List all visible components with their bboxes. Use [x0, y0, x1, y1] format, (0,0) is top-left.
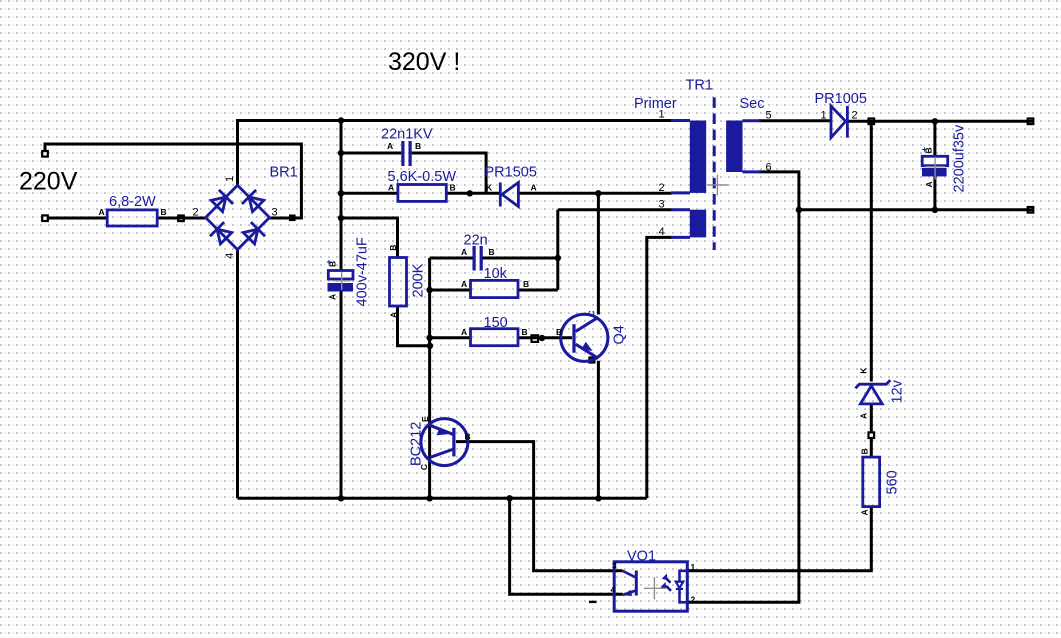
crosshair 400v-47uF origin [333, 272, 351, 290]
terminal pad output plus [1028, 119, 1034, 125]
junction Q4 base node [539, 335, 545, 341]
wire transformer pin 5 to PR1005 anode [759, 119, 832, 122]
svg-text:560: 560 [885, 470, 901, 494]
svg-text:A: A [99, 207, 105, 217]
svg-text:A: A [328, 294, 338, 300]
svg-text:3: 3 [612, 561, 617, 571]
junction 2200uF bottom [932, 207, 938, 213]
svg-text:220V: 220V [19, 168, 78, 196]
wire 560 A to opto pin 1 [687, 507, 871, 571]
svg-text:4: 4 [224, 253, 236, 259]
wire pad to 560 B [870, 438, 873, 457]
svg-text:22n1KV: 22n1KV [381, 126, 433, 142]
junction snubber row / x341 [338, 190, 344, 196]
pin letters 400v cap [324, 260, 338, 268]
svg-text:C: C [419, 464, 429, 470]
svg-text:E: E [420, 416, 430, 422]
wire ground rail to opto pin 4 [510, 498, 623, 594]
svg-text:150: 150 [484, 315, 508, 331]
wire 22n1KV row right with drop to snubber row [412, 153, 487, 193]
terminal pad 220V live [42, 151, 48, 157]
wire HV rail x341 lower [340, 292, 343, 499]
resistor 5,6K-0.5W [398, 185, 446, 202]
svg-text:A: A [461, 247, 467, 257]
pin numbers PR1005 [821, 109, 858, 121]
svg-text:5,6K-0.5W: 5,6K-0.5W [388, 169, 457, 185]
svg-text:2: 2 [659, 182, 665, 194]
crosshair 2200uf35v origin [925, 157, 945, 180]
wire 22n1KV row left [341, 152, 401, 155]
wire transformer pin 3 row [558, 208, 672, 211]
svg-text:B: B [522, 327, 528, 337]
wire 2200uF bottom [933, 176, 936, 210]
svg-text:BR1: BR1 [270, 165, 298, 181]
svg-text:12v: 12v [890, 379, 906, 403]
wire 22n row right [482, 257, 558, 260]
svg-text:K: K [859, 367, 869, 374]
capacitor 400v-47uF polarized [328, 271, 354, 292]
junction ground rail / x341 [338, 495, 344, 501]
svg-text:Sec: Sec [740, 96, 765, 112]
svg-text:6,8-2W: 6,8-2W [109, 194, 156, 210]
resistor 6,8-2W [107, 210, 157, 226]
wire resistor B to bridge node 2 [157, 217, 205, 220]
pad 150 B net [532, 335, 539, 342]
wire Q4 emitter to ground rail [597, 361, 600, 499]
svg-text:A: A [924, 181, 934, 187]
wire 200K bottom to mid vertical [398, 306, 430, 346]
wire HV rail x341 upper [340, 121, 343, 271]
svg-text:BC212: BC212 [409, 422, 425, 466]
optocoupler VO1 [614, 562, 687, 611]
wire zener anode to pad [870, 405, 873, 433]
wire mid vertical through BC212 [428, 258, 431, 498]
svg-text:Q4: Q4 [612, 325, 628, 344]
resistor 150 [471, 329, 519, 346]
wire 150 row left [430, 336, 471, 339]
wire secondary return rail [799, 208, 1033, 211]
svg-text:3: 3 [659, 199, 665, 211]
pin letters 6,8-2W [99, 207, 167, 217]
svg-text:2200uf35v: 2200uf35v [952, 124, 968, 192]
terminal pad output minus [1028, 207, 1034, 213]
pad output node [869, 119, 875, 125]
svg-text:A: A [461, 327, 467, 337]
svg-text:B: B [450, 182, 456, 192]
svg-text:TR1: TR1 [686, 78, 713, 94]
svg-text:B: B [556, 327, 562, 337]
wire primary ground rail [238, 497, 647, 500]
svg-text:B: B [465, 432, 471, 442]
bridge rectifier BR1 [206, 185, 270, 249]
wire snubber row rail to 5,6K A [341, 192, 398, 195]
svg-text:+: + [919, 147, 929, 152]
svg-text:B: B [523, 279, 529, 289]
wire transformer pin 6 down to opto pin 2 [687, 172, 799, 602]
junction Q4 collector node [595, 190, 601, 196]
svg-text:A: A [531, 182, 537, 192]
junction 2200uF top [932, 118, 938, 124]
svg-text:2: 2 [193, 207, 199, 219]
junction Q4 emitter / ground rail [595, 495, 601, 501]
svg-text:1: 1 [821, 109, 827, 121]
resistor 200K [390, 258, 407, 307]
svg-text:+: + [324, 260, 334, 265]
svg-text:5: 5 [766, 109, 772, 121]
svg-text:1: 1 [224, 176, 236, 182]
svg-text:Primer: Primer [634, 96, 677, 112]
svg-text:A: A [461, 279, 467, 289]
svg-text:320V !: 320V ! [388, 48, 460, 76]
svg-text:2: 2 [852, 109, 858, 121]
svg-text:A: A [388, 182, 394, 192]
polarity mark minus at opto [589, 601, 597, 603]
pad zener anode net [869, 432, 875, 438]
svg-text:B: B [161, 207, 167, 217]
wire 220V neutral terminal to resistor A [47, 217, 107, 220]
junction 200K bottom node [427, 343, 433, 349]
wire bridge node 1 to top rail and transformer pin 1 [238, 121, 672, 186]
terminal pad 220V neutral [42, 215, 48, 221]
svg-text:A: A [859, 413, 869, 419]
resistor 10k [471, 280, 519, 297]
wire BC212 base to opto pin 3 [456, 442, 623, 571]
junction 22n B node [555, 255, 561, 261]
transformer pin numbers [659, 109, 772, 239]
resistor 560 [863, 457, 880, 507]
pin letters BC212 [419, 416, 471, 470]
pin letters 560 [860, 448, 870, 515]
transformer TR1 [671, 97, 761, 250]
pad bridge node 3 net [290, 216, 294, 220]
svg-text:K: K [486, 182, 493, 192]
diode PR1505 [500, 183, 518, 207]
junction top rail / x341 [338, 117, 344, 123]
wire x341 to 200K top [341, 218, 398, 258]
svg-text:200K: 200K [411, 263, 427, 297]
svg-text:A: A [387, 141, 393, 151]
wire PR1005 cathode to output terminal [848, 120, 1033, 123]
pin letters 2200uf cap [919, 147, 934, 188]
capacitor 2200uf35v polarized [922, 156, 948, 176]
crosshair VO1 origin [644, 577, 666, 599]
transistor BC212 PNP [421, 419, 468, 466]
zener diode 12v [855, 380, 890, 404]
diode PR1005 [831, 106, 847, 138]
capacitor 22n [473, 246, 483, 271]
wire PR1505 anode to transformer pin 2 [518, 192, 671, 195]
wire transformer pin 4 to ground rail [647, 237, 672, 498]
pin letters 10k [461, 279, 529, 289]
wire 5,6K B to PR1505 cathode [446, 192, 499, 195]
svg-text:PR1505: PR1505 [485, 164, 537, 180]
svg-text:10k: 10k [484, 266, 508, 282]
junction BC212 collector / ground rail [426, 495, 432, 501]
svg-text:B: B [388, 245, 398, 251]
junction 150 A node [426, 335, 432, 341]
opto pin numbers [611, 561, 696, 605]
junction pin6 / secondary return [796, 207, 802, 213]
junction 200K jog / x341 [338, 215, 344, 221]
pin letters 200K [388, 245, 398, 318]
wire Q4 collector to snubber node [597, 193, 600, 314]
svg-text:B: B [860, 448, 870, 454]
junction 22n1KV row / x341 [338, 150, 344, 156]
capacitor 22n1KV [401, 141, 411, 166]
svg-text:1: 1 [659, 109, 665, 121]
wire output node to zener cathode [870, 121, 873, 381]
svg-text:B: B [489, 247, 495, 257]
svg-text:PR1005: PR1005 [815, 91, 867, 107]
pin letters 22n [461, 247, 495, 257]
wire bridge node 4 to ground rail [236, 250, 239, 499]
wire 22n row left [430, 257, 473, 260]
wire 10k row left [430, 289, 471, 292]
junction 5,6K B node [467, 190, 473, 196]
svg-text:VO1: VO1 [627, 549, 656, 565]
wire 10k B to feedback vertical [518, 289, 558, 292]
wire 2200uF top [933, 121, 936, 157]
crosshair TR1 origin [707, 175, 728, 196]
bridge pin numbers [193, 176, 278, 259]
wire 220V live terminal to bridge node 3 [45, 144, 301, 218]
pad Q4 emitter [589, 358, 594, 363]
svg-text:6: 6 [766, 161, 772, 173]
pin letters 150 [461, 327, 528, 337]
svg-text:A: A [860, 509, 870, 515]
transistor Q4 NPN [561, 314, 608, 361]
svg-text:1: 1 [691, 562, 696, 572]
svg-text:A: A [388, 312, 398, 318]
svg-text:2: 2 [691, 595, 696, 605]
pin letters PR1505 [486, 182, 537, 192]
svg-text:4: 4 [659, 226, 665, 238]
junction 10k A node [426, 287, 432, 293]
junction opto pin4 / ground rail [506, 495, 512, 501]
pin letters zener [859, 367, 869, 419]
pin letters 5,6K [388, 182, 456, 192]
svg-text:3: 3 [272, 207, 278, 219]
wire feedback vertical pin3 to 10k B [556, 210, 559, 290]
pad resistor B net [178, 216, 184, 222]
svg-text:B: B [415, 141, 421, 151]
pin letters 22n1KV [387, 141, 421, 151]
svg-text:4: 4 [611, 585, 616, 595]
wire 150 B to Q4 base [518, 336, 572, 339]
svg-text:400v-47uF: 400v-47uF [355, 237, 371, 306]
svg-text:C: C [587, 310, 597, 316]
